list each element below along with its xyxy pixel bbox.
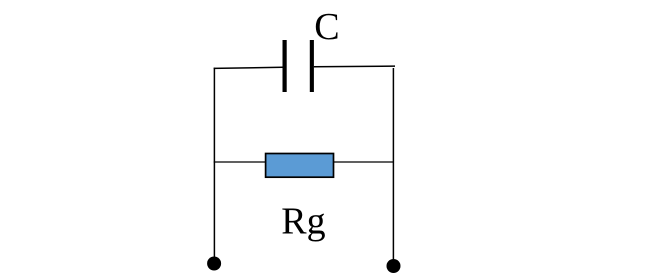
svg-text:Rg: Rg (281, 201, 325, 243)
svg-text:C: C (314, 6, 339, 48)
